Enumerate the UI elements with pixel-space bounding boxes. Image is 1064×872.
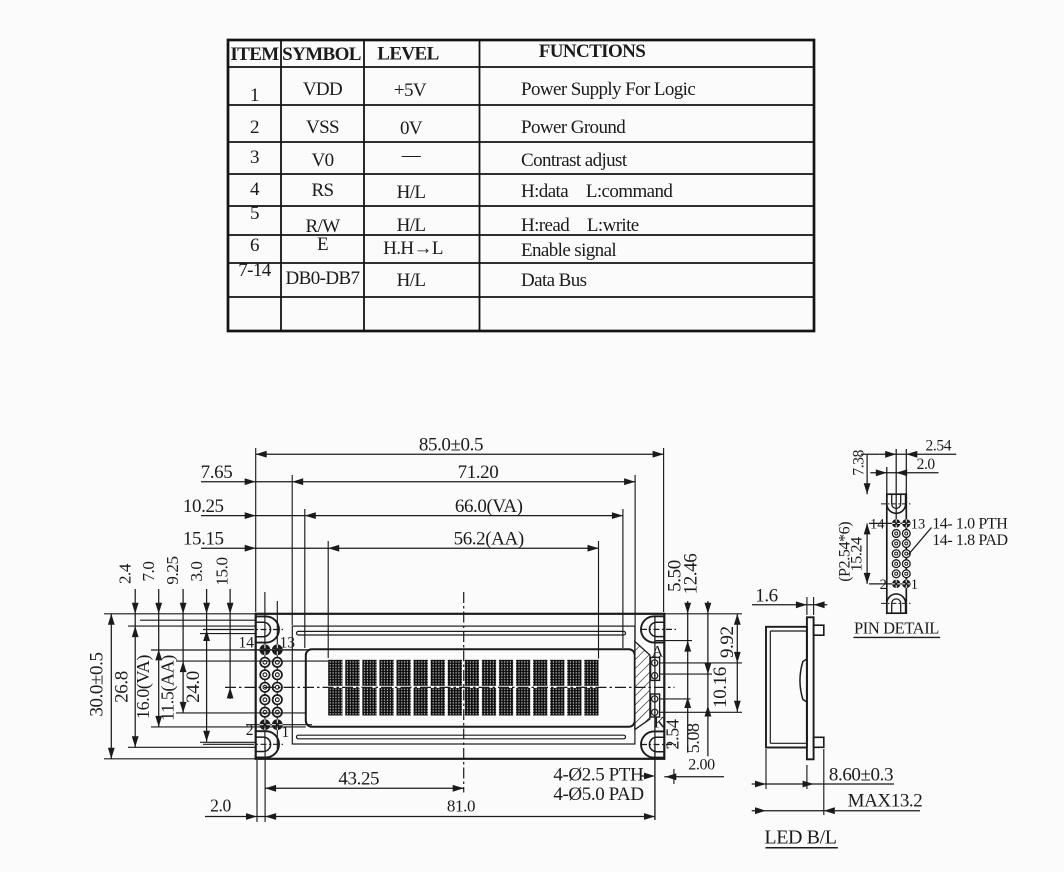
- svg-text:Contrast adjust: Contrast adjust: [521, 150, 628, 171]
- svg-text:13: 13: [911, 517, 926, 533]
- svg-text:Power Supply For Logic: Power Supply For Logic: [521, 79, 695, 100]
- svg-text:15.0: 15.0: [213, 557, 232, 585]
- svg-text:ITEM: ITEM: [230, 44, 279, 65]
- svg-text:2: 2: [880, 577, 887, 593]
- svg-text:2: 2: [246, 722, 254, 739]
- svg-text:0V: 0V: [400, 118, 423, 139]
- svg-text:1.6: 1.6: [755, 586, 778, 607]
- svg-text:7.0: 7.0: [139, 561, 158, 581]
- svg-text:7.38: 7.38: [851, 449, 868, 475]
- svg-text:MAX13.2: MAX13.2: [848, 791, 923, 812]
- svg-text:SYMBOL: SYMBOL: [282, 44, 361, 65]
- svg-text:2.54: 2.54: [662, 719, 682, 749]
- svg-text:2.4: 2.4: [116, 563, 135, 584]
- svg-text:81.0: 81.0: [447, 797, 475, 816]
- svg-text:E: E: [317, 234, 328, 255]
- svg-text:FUNCTIONS: FUNCTIONS: [539, 41, 646, 62]
- svg-text:71.20: 71.20: [458, 462, 499, 483]
- svg-text:LEVEL: LEVEL: [377, 44, 438, 65]
- svg-text:14- 1.8 PAD: 14- 1.8 PAD: [932, 532, 1007, 549]
- svg-text:VDD: VDD: [303, 79, 342, 100]
- svg-text:14: 14: [870, 517, 885, 533]
- svg-text:43.25: 43.25: [338, 769, 379, 790]
- svg-text:7-14: 7-14: [238, 260, 272, 281]
- svg-text:1: 1: [250, 85, 259, 106]
- svg-text:5.08: 5.08: [683, 723, 703, 753]
- svg-text:Power Ground: Power Ground: [521, 117, 626, 138]
- svg-text:Enable signal: Enable signal: [521, 240, 616, 261]
- svg-text:—: —: [401, 145, 422, 166]
- svg-text:5: 5: [250, 203, 259, 224]
- svg-text:2.00: 2.00: [688, 757, 715, 774]
- svg-text:9.92: 9.92: [717, 626, 738, 658]
- svg-text:16.0(VA): 16.0(VA): [133, 655, 154, 719]
- svg-text:H.H→L: H.H→L: [383, 238, 443, 259]
- svg-text:8.60±0.3: 8.60±0.3: [829, 765, 893, 786]
- svg-text:24.0: 24.0: [183, 671, 204, 703]
- svg-text:6: 6: [250, 235, 259, 256]
- svg-text:3: 3: [250, 147, 259, 168]
- svg-text:H:data L:command: H:data L:command: [521, 181, 673, 202]
- svg-text:13: 13: [280, 635, 296, 652]
- svg-text:2.54: 2.54: [926, 438, 952, 455]
- svg-text:10.25: 10.25: [183, 496, 224, 517]
- svg-text:12.46: 12.46: [681, 554, 702, 595]
- svg-text:2: 2: [250, 117, 259, 138]
- svg-text:66.0(VA): 66.0(VA): [455, 496, 523, 517]
- svg-text:15.24: 15.24: [849, 537, 866, 571]
- svg-text:56.2(AA): 56.2(AA): [454, 529, 524, 550]
- svg-text:9.25: 9.25: [163, 556, 182, 584]
- svg-text:30.0±0.5: 30.0±0.5: [87, 652, 108, 716]
- svg-text:2.0: 2.0: [917, 456, 936, 473]
- svg-text:PIN DETAIL: PIN DETAIL: [854, 619, 939, 638]
- svg-text:H/L: H/L: [397, 182, 426, 203]
- svg-text:2.0: 2.0: [210, 796, 231, 816]
- svg-text:15.15: 15.15: [183, 529, 224, 550]
- svg-text:10.16: 10.16: [710, 667, 731, 708]
- svg-text:26.8: 26.8: [112, 671, 133, 703]
- svg-text:14- 1.0 PTH: 14- 1.0 PTH: [932, 515, 1008, 532]
- svg-text:LED B/L: LED B/L: [764, 827, 836, 849]
- svg-text:14: 14: [239, 635, 255, 652]
- svg-text:85.0±0.5: 85.0±0.5: [419, 435, 483, 456]
- svg-text:Data Bus: Data Bus: [521, 270, 587, 291]
- svg-text:V0: V0: [311, 150, 333, 171]
- svg-text:4-Ø5.0 PAD: 4-Ø5.0 PAD: [553, 784, 643, 805]
- svg-text:1: 1: [911, 577, 918, 593]
- svg-text:RS: RS: [311, 180, 333, 201]
- svg-text:11.5(AA): 11.5(AA): [158, 655, 179, 721]
- svg-text:4: 4: [250, 179, 260, 200]
- svg-text:H:read L:write: H:read L:write: [521, 215, 639, 236]
- svg-text:A: A: [652, 644, 664, 661]
- svg-text:+5V: +5V: [394, 80, 427, 101]
- svg-text:H/L: H/L: [397, 215, 426, 236]
- svg-text:7.65: 7.65: [201, 462, 233, 483]
- svg-text:DB0-DB7: DB0-DB7: [286, 268, 360, 289]
- svg-text:4-Ø2.5 PTH: 4-Ø2.5 PTH: [553, 765, 644, 786]
- svg-text:H/L: H/L: [397, 270, 426, 291]
- svg-text:3.0: 3.0: [187, 561, 206, 581]
- svg-text:VSS: VSS: [306, 117, 339, 138]
